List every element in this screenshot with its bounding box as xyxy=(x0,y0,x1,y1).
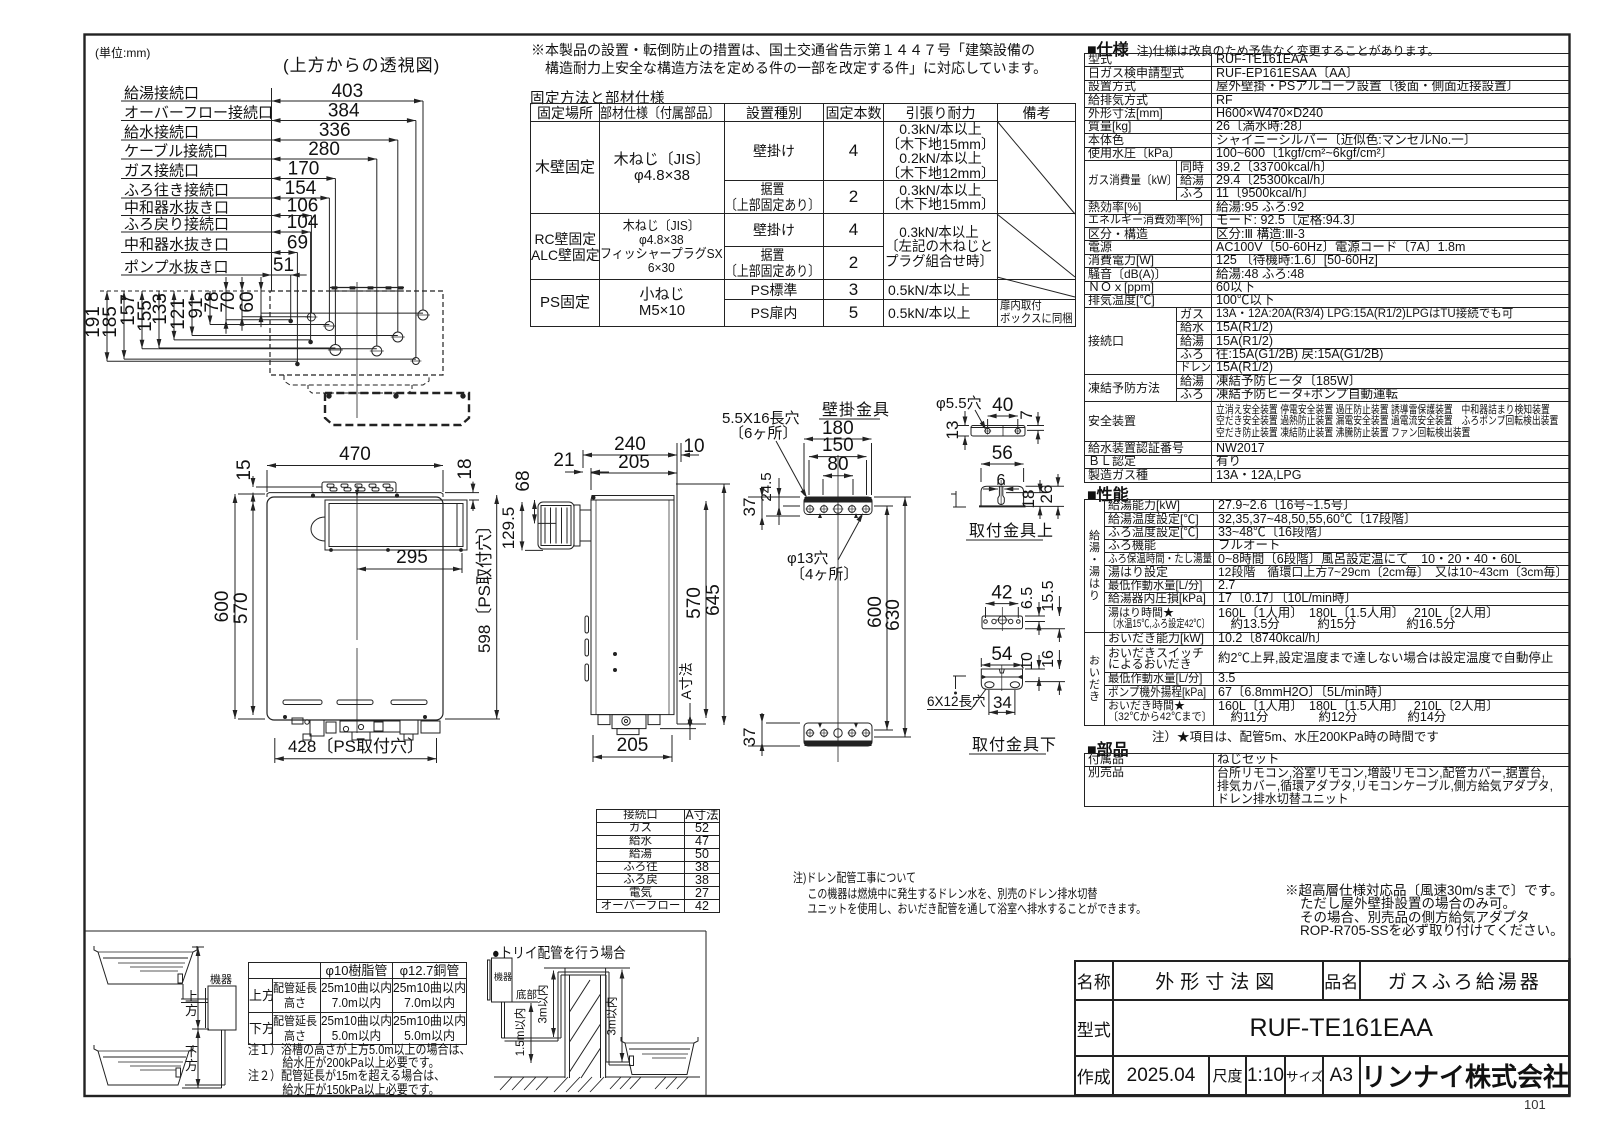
svg-text:280: 280 xyxy=(308,139,340,160)
lower tub drain xyxy=(176,1068,181,1077)
dim 13 part1 xyxy=(964,411,966,426)
center mark top xyxy=(355,490,359,497)
hline to port 170 xyxy=(159,347,335,349)
svg-text:51: 51 xyxy=(273,255,294,276)
dim 6.5 part3 xyxy=(1038,602,1040,616)
vdim 121 xyxy=(191,291,193,336)
side view body xyxy=(591,500,674,715)
svg-text:336: 336 xyxy=(319,120,351,141)
svg-text:中和器水抜き口: 中和器水抜き口 xyxy=(124,237,229,254)
svg-text:A寸法: A寸法 xyxy=(678,662,694,699)
svg-text:器: 器 xyxy=(503,972,512,982)
torii pipe down from unit xyxy=(501,1002,503,1038)
section mark lower xyxy=(953,675,966,677)
svg-text:570: 570 xyxy=(231,592,252,624)
vent left arc bump xyxy=(311,517,325,541)
performance table xyxy=(1084,499,1570,726)
dim 295 xyxy=(357,568,462,570)
dim 600 xyxy=(234,494,236,719)
hline to port 403 xyxy=(261,312,423,314)
svg-text:15: 15 xyxy=(234,459,255,480)
wall column xyxy=(565,968,606,1078)
svg-text:645: 645 xyxy=(703,584,724,616)
dim 6 part2 xyxy=(983,488,998,490)
upper tub water lines xyxy=(103,957,188,959)
svg-text:34: 34 xyxy=(993,693,1012,712)
piping length table xyxy=(248,962,467,1045)
svg-text:給水接続口: 給水接続口 xyxy=(124,124,199,141)
svg-text:104: 104 xyxy=(287,212,319,233)
ground hatch xyxy=(500,1077,512,1090)
svg-text:42: 42 xyxy=(991,583,1012,604)
section mark upper xyxy=(955,491,957,507)
ports (circles) xyxy=(418,310,428,320)
svg-text:60: 60 xyxy=(237,291,258,312)
high-rise note xyxy=(1285,884,1564,938)
piping notes xyxy=(248,1043,507,1096)
svg-text:21: 21 xyxy=(553,450,574,471)
torii pipe up over wall xyxy=(557,972,559,1041)
dim 37 bottom xyxy=(761,713,763,756)
parts table xyxy=(1084,753,1570,808)
part2 keyhole slot xyxy=(998,486,1004,504)
vdim 70 xyxy=(241,277,243,331)
dim 1.5m xyxy=(530,1003,532,1063)
side dots xyxy=(614,653,617,656)
svg-text:ポンプ水抜き口: ポンプ水抜き口 xyxy=(124,259,229,276)
curved front of unit (dashed) xyxy=(284,375,429,385)
svg-text:方: 方 xyxy=(185,1003,198,1018)
dim 600 bracket xyxy=(886,506,888,730)
dim kaho (lower) xyxy=(197,1029,199,1088)
fixing table title xyxy=(530,87,665,108)
svg-text:205: 205 xyxy=(617,735,649,756)
dim 470 xyxy=(267,465,443,467)
dashed top edge line xyxy=(100,290,270,292)
side view top cap xyxy=(591,496,674,501)
vent outline top view (dashed) xyxy=(308,385,412,393)
dim 37 top xyxy=(761,487,763,530)
upper pipe xyxy=(182,984,184,999)
svg-text:オーバーフロー接続口: オーバーフロー接続口 xyxy=(124,105,273,122)
dim 7 part1 xyxy=(1037,412,1039,426)
vdim 60 xyxy=(260,277,262,327)
svg-text:7: 7 xyxy=(1017,410,1036,419)
svg-text:570: 570 xyxy=(684,587,705,619)
svg-text:70: 70 xyxy=(218,291,239,312)
dim joho (upper) xyxy=(197,947,199,1029)
svg-text:56: 56 xyxy=(992,443,1013,464)
wall line xyxy=(676,443,678,724)
svg-text:給湯接続口: 給湯接続口 xyxy=(124,85,199,102)
dim 18 right top xyxy=(472,482,474,493)
svg-text:10: 10 xyxy=(683,436,704,457)
hline to port 336 xyxy=(192,335,398,337)
hline to port 51 xyxy=(226,319,291,321)
A-dimension table xyxy=(596,809,720,913)
svg-text:(単位:mm): (単位:mm) xyxy=(95,45,150,60)
bottom screws xyxy=(284,716,287,719)
lower fitting part4 body xyxy=(981,669,1022,689)
svg-text:ガス接続口: ガス接続口 xyxy=(124,163,199,180)
svg-text:295: 295 xyxy=(396,547,428,568)
dim 68 xyxy=(534,500,536,523)
title block region border xyxy=(1568,958,1570,1096)
front view unit body xyxy=(267,497,443,720)
dim 3m right xyxy=(621,970,623,1063)
svg-text:機: 機 xyxy=(494,971,503,982)
top mounting bracket xyxy=(322,482,396,493)
dim 570 xyxy=(252,502,254,715)
bottom connection stubs xyxy=(292,718,303,724)
svg-text:φ5.5穴: φ5.5穴 xyxy=(936,395,982,412)
part4 slots xyxy=(985,682,994,688)
svg-text:80: 80 xyxy=(827,454,848,475)
dim 54 part4 xyxy=(981,664,1022,666)
svg-text:ふろ往き接続口: ふろ往き接続口 xyxy=(124,182,229,199)
dim 150 xyxy=(809,456,867,458)
svg-text:26: 26 xyxy=(1037,485,1056,504)
torii bathtub xyxy=(621,1037,698,1075)
svg-text:69: 69 xyxy=(287,233,308,254)
svg-text:630: 630 xyxy=(883,599,904,631)
side bottom stubs xyxy=(598,715,610,725)
svg-text:6.5: 6.5 xyxy=(1019,587,1036,609)
svg-text:403: 403 xyxy=(331,81,363,102)
svg-text:〔6ヶ所〕: 〔6ヶ所〕 xyxy=(729,425,797,442)
svg-text:37: 37 xyxy=(740,498,759,517)
lower pipe xyxy=(221,1030,223,1088)
upper fitting part1 plate xyxy=(971,426,1025,437)
vdim 191 xyxy=(106,291,108,361)
svg-text:384: 384 xyxy=(328,101,360,122)
spec table xyxy=(1084,53,1570,483)
svg-text:16: 16 xyxy=(1040,650,1057,668)
svg-text:方: 方 xyxy=(185,1058,198,1073)
svg-text:170: 170 xyxy=(288,159,320,180)
installation notice xyxy=(531,42,1047,77)
svg-text:18: 18 xyxy=(455,458,476,479)
title block table xyxy=(1074,960,1571,1096)
dim 645 xyxy=(723,484,725,725)
lower bathtub xyxy=(94,1045,193,1085)
side view vent xyxy=(538,502,574,549)
dim 180 xyxy=(804,438,872,440)
dim 240 xyxy=(583,454,677,456)
dim 42 part3 xyxy=(986,603,1019,605)
dim 598 PS holes right xyxy=(496,495,498,719)
dim 129.5 xyxy=(521,502,523,550)
top bracket seen from above xyxy=(330,287,404,289)
ground line xyxy=(494,1076,565,1078)
dim 34 part4 xyxy=(989,711,1015,713)
hline to port 106 xyxy=(242,316,311,318)
dim 18 part2 xyxy=(1039,480,1041,493)
louver slots bottom xyxy=(283,700,322,705)
screws on top edge xyxy=(311,494,314,497)
svg-text:40: 40 xyxy=(992,395,1013,416)
svg-text:機器: 機器 xyxy=(210,972,232,986)
upper fitting part2 body xyxy=(981,486,1024,506)
drain note xyxy=(793,871,1234,918)
svg-text:68: 68 xyxy=(513,470,534,491)
unit top view dashed outline xyxy=(270,291,443,375)
svg-text:470: 470 xyxy=(339,444,371,465)
wall hatch xyxy=(570,994,601,1042)
hline to port 384 xyxy=(124,358,416,360)
dim 16 part4 xyxy=(1058,650,1060,669)
svg-text:54: 54 xyxy=(991,644,1013,665)
fixing methods table xyxy=(530,103,1076,327)
piping section box xyxy=(84,930,706,932)
torii unit box xyxy=(492,958,513,1002)
hline to port 154 xyxy=(210,324,329,326)
vdim 133 xyxy=(173,291,175,340)
dim 10 part4 xyxy=(1038,655,1040,669)
bracket center line xyxy=(837,455,839,762)
svg-text:150: 150 xyxy=(822,435,854,456)
vent screws xyxy=(330,549,333,552)
parts header xyxy=(1087,736,1129,760)
dim 21 xyxy=(565,471,583,473)
vdim 91 xyxy=(209,291,211,325)
spec section header xyxy=(1087,36,1439,60)
svg-text:中和器水抜き口: 中和器水抜き口 xyxy=(124,200,229,217)
svg-text:3m以内: 3m以内 xyxy=(536,985,550,1024)
remarks diagonal lines xyxy=(997,121,1075,214)
svg-text:600: 600 xyxy=(212,591,233,623)
front view top cap line xyxy=(269,492,441,494)
dim 205 top xyxy=(591,472,677,474)
sheet number xyxy=(1524,1097,1546,1112)
hline to port 104 xyxy=(174,339,311,341)
lower fitting part3 plate xyxy=(982,616,1023,629)
svg-text:ふろ戻り接続口: ふろ戻り接続口 xyxy=(124,216,229,233)
performance header xyxy=(1087,481,1129,505)
vdim 155 xyxy=(158,291,160,348)
hline to port 69 xyxy=(107,360,297,362)
front louvers on side view xyxy=(585,616,589,633)
svg-text:上: 上 xyxy=(185,989,198,1004)
svg-text:13: 13 xyxy=(943,421,962,440)
svg-text:底部: 底部 xyxy=(516,988,537,1001)
svg-text:15.5: 15.5 xyxy=(1040,580,1057,611)
PS box dots xyxy=(327,394,331,398)
svg-text:205: 205 xyxy=(618,452,650,473)
vdim 78 xyxy=(225,277,227,334)
vdim 157 xyxy=(141,291,143,349)
svg-text:10: 10 xyxy=(1019,652,1036,670)
vdim 185 xyxy=(123,291,125,359)
dim 80 xyxy=(823,475,853,477)
center line of overhead view xyxy=(356,282,358,418)
dim 40 part1 xyxy=(988,415,1018,417)
dim 56 part2 xyxy=(981,463,1024,465)
svg-text:ケーブル接続口: ケーブル接続口 xyxy=(124,142,228,160)
svg-text:取付金具上: 取付金具上 xyxy=(969,522,1054,540)
PS box bold dashed outline xyxy=(325,393,469,425)
dim 630 bracket xyxy=(904,497,906,737)
top bracket plate xyxy=(804,497,872,515)
dim 3m left xyxy=(553,971,555,1038)
svg-text:3m以内: 3m以内 xyxy=(605,997,619,1036)
upper tub drain xyxy=(178,974,183,983)
svg-text:壁掛金具: 壁掛金具 xyxy=(822,400,890,419)
dim 10 xyxy=(659,454,677,456)
dim 205 bottom xyxy=(593,756,672,758)
center line front view xyxy=(356,485,358,640)
dim 26 part2 xyxy=(1057,474,1059,486)
dim A right of side view xyxy=(689,703,691,740)
exhaust vent front xyxy=(325,500,467,550)
bottom bracket plate xyxy=(804,723,872,746)
svg-text:取付金具下: 取付金具下 xyxy=(972,736,1057,754)
dim 570 right of side view xyxy=(705,501,707,718)
svg-text:(上方からの透視図): (上方からの透視図) xyxy=(283,56,440,75)
hline to port 280 xyxy=(142,348,377,350)
lower tub water lines xyxy=(103,1056,186,1058)
performance footnote xyxy=(1152,726,1439,745)
upper bathtub xyxy=(94,946,197,984)
svg-text:598〔PS取付穴〕: 598〔PS取付穴〕 xyxy=(475,517,494,653)
dim 428 PS holes bottom xyxy=(275,758,437,760)
dim 15.5 part3 xyxy=(1058,596,1060,616)
dim 15 left top xyxy=(252,476,254,487)
svg-text:〔4ヶ所〕: 〔4ヶ所〕 xyxy=(790,566,858,583)
vertical baseline of horizontal dims xyxy=(271,88,273,291)
dim 24.5 xyxy=(778,478,780,525)
svg-text:129.5: 129.5 xyxy=(499,507,518,550)
svg-text:1.5m以内: 1.5m以内 xyxy=(513,1008,527,1057)
svg-text:37: 37 xyxy=(740,728,759,747)
svg-text:φ13穴: φ13穴 xyxy=(787,550,828,567)
